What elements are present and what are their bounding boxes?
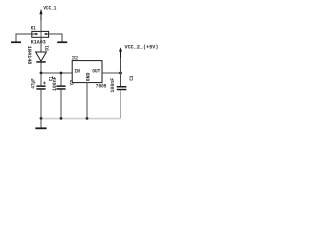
power symbol VCC_2 [119, 44, 159, 58]
ground bar right [57, 41, 67, 43]
svg-text:47µF: 47µF [31, 78, 37, 88]
wire IC2 OUT to node [102, 72, 121, 74]
wire rail to ground [40, 119, 42, 128]
wire K1 left pin [16, 34, 32, 42]
diode D1 [26, 45, 51, 64]
junction dot OUT node [119, 72, 122, 75]
svg-text:VCC_2_(+5V): VCC_2_(+5V) [125, 44, 159, 50]
wire C2 to rail [60, 90, 62, 119]
junction dot rail C2 [60, 117, 63, 120]
wire K1 to D1 [40, 37, 42, 52]
wire D1 to node [40, 63, 42, 74]
svg-text:OUT: OUT [92, 68, 100, 74]
svg-text:1N4148: 1N4148 [26, 46, 32, 65]
junction dot rail C1 [40, 117, 43, 120]
relay coil K1 [31, 26, 49, 46]
wire VCC_1 to K1 coil [40, 21, 42, 32]
junction dot rail IC2 GND [86, 117, 89, 120]
wire node to C1 [40, 73, 42, 86]
wire C3 to rail [120, 90, 122, 118]
ground symbol [35, 127, 46, 129]
ground bar left [11, 41, 21, 43]
svg-text:7805: 7805 [96, 83, 107, 89]
junction dot node C1 top [40, 72, 43, 75]
svg-text:100nF: 100nF [52, 77, 58, 92]
wire K1 right pin [49, 34, 62, 42]
svg-text:IN: IN [74, 68, 80, 74]
svg-text:K1: K1 [31, 26, 36, 32]
wire node to C3 [120, 73, 122, 86]
capacitor C1 polarized 47uF [31, 76, 55, 90]
capacitor C3 100nF [110, 76, 135, 93]
svg-text:VCC_1: VCC_1 [43, 6, 56, 12]
ground rail wire [41, 118, 121, 120]
op-amp U1 regulator IC2 box [72, 55, 106, 89]
power symbol VCC_1 [39, 6, 56, 21]
capacitor C2 100nF [52, 77, 76, 92]
wire node row to IC2 IN [41, 72, 72, 74]
wire IC2 GND to rail [86, 83, 88, 119]
svg-text:D1: D1 [45, 45, 51, 50]
junction dot node C2 top [60, 72, 63, 75]
svg-text:C3: C3 [129, 76, 135, 81]
wire node to C2 [60, 73, 62, 86]
svg-text:K1A03: K1A03 [31, 39, 46, 45]
wire C1 to rail [40, 90, 42, 119]
svg-text:IC2: IC2 [72, 55, 78, 61]
wire VCC_2 to node [120, 58, 122, 73]
svg-text:100nF: 100nF [110, 78, 116, 93]
svg-text:GND: GND [85, 73, 91, 82]
